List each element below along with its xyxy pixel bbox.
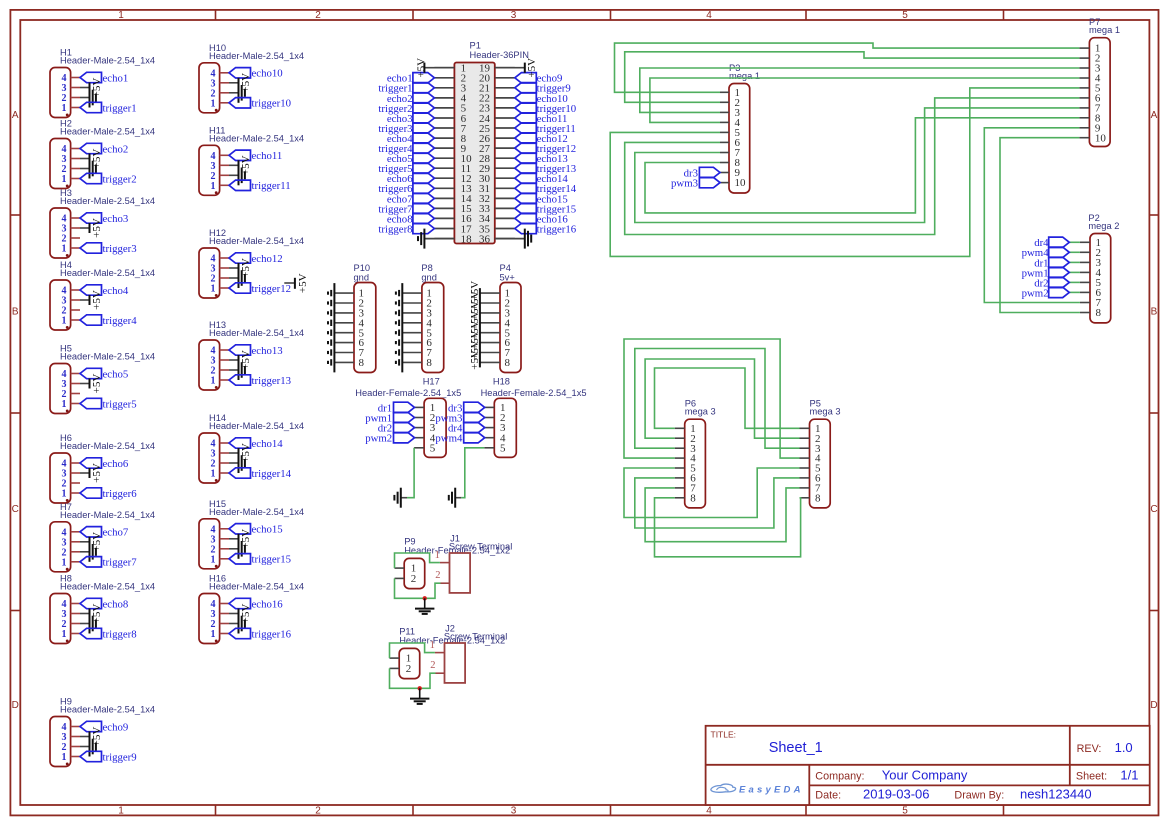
svg-text:Screw Terminal: Screw Terminal xyxy=(449,541,512,551)
H18 pin5 wire to ground xyxy=(455,448,494,498)
header H18 Header-Female-2.54_1x5 xyxy=(481,377,587,458)
svg-text:trigger2: trigger2 xyxy=(103,173,137,185)
net flag echo7 (P1 pin 14) xyxy=(387,193,435,205)
net flag echo4 (P1 pin 8) xyxy=(387,133,435,145)
svg-text:Header-Female-2.54_1x5: Header-Female-2.54_1x5 xyxy=(355,388,461,398)
wire P6.1-P5.1 xyxy=(655,368,800,428)
svg-text:echo16: echo16 xyxy=(252,598,284,610)
net flag echo11 xyxy=(229,150,282,162)
net flag trigger14 (P1 pin 31) xyxy=(515,183,577,195)
net flag trigger6 xyxy=(80,488,137,500)
wire P6.2-P5.2 xyxy=(645,359,799,438)
H10 pin 1 marker xyxy=(215,109,218,112)
svg-text:1: 1 xyxy=(118,806,124,817)
net flag echo11 (P1 pin 24) xyxy=(515,113,568,125)
net flag dr2 xyxy=(378,422,415,434)
svg-text:1.0: 1.0 xyxy=(1115,740,1133,755)
wire P11 pin1 to J2 pin1 xyxy=(390,643,435,658)
H11 pin 1 marker xyxy=(215,191,218,194)
svg-text:B: B xyxy=(12,307,19,318)
svg-text:1: 1 xyxy=(211,554,216,565)
svg-text:trigger15: trigger15 xyxy=(252,554,292,566)
header H8 Header-Male-2.54_1x4 xyxy=(50,574,155,644)
svg-text:3: 3 xyxy=(511,806,517,817)
svg-text:2: 2 xyxy=(315,10,321,21)
net flag echo2 xyxy=(80,143,128,155)
screw terminal J2 xyxy=(430,624,508,683)
net flag echo6 xyxy=(80,458,129,470)
svg-text:echo13: echo13 xyxy=(252,345,283,357)
net flag pwm2 xyxy=(1022,287,1080,299)
header H2 Header-Male-2.54_1x4 xyxy=(50,119,155,189)
svg-text:+5V: +5V xyxy=(91,218,103,238)
svg-text:Screw Terminal: Screw Terminal xyxy=(444,631,507,641)
H12 pin 1 marker xyxy=(215,294,218,297)
svg-text:5: 5 xyxy=(500,442,506,454)
net flag trigger7 (P1 pin 15) xyxy=(378,203,434,215)
svg-text:Company:: Company: xyxy=(815,770,864,782)
wire P3.7-P7.7 xyxy=(635,108,1080,223)
svg-text:echo9: echo9 xyxy=(103,721,129,733)
ground xyxy=(80,737,96,757)
net flag echo10 (P1 pin 22) xyxy=(515,93,568,105)
header H5 Header-Male-2.54_1x4 xyxy=(50,344,155,414)
ground xyxy=(229,83,245,103)
svg-text:1: 1 xyxy=(62,489,67,500)
svg-text:pwm3: pwm3 xyxy=(671,178,698,190)
power +5V xyxy=(229,604,252,624)
net flag echo2 (P1 pin 4) xyxy=(387,93,435,105)
net flag pwm2 xyxy=(365,433,414,445)
net flag echo10 xyxy=(229,68,283,80)
svg-text:trigger9: trigger9 xyxy=(103,751,137,763)
svg-text:trigger16: trigger16 xyxy=(252,628,292,640)
net flag pwm3 xyxy=(435,412,484,424)
header H14 Header-Male-2.54_1x4 xyxy=(199,413,304,483)
svg-text:8: 8 xyxy=(690,492,696,504)
net flag trigger2 xyxy=(80,173,137,185)
net flag trigger3 xyxy=(80,243,137,255)
net flag pwm3 xyxy=(671,177,720,189)
ground (P1 pin 18) xyxy=(418,229,454,249)
svg-text:Header-Male-2.54_1x4: Header-Male-2.54_1x4 xyxy=(209,507,304,517)
H9 pin 1 marker xyxy=(66,763,69,766)
junction xyxy=(418,686,422,690)
svg-text:5: 5 xyxy=(902,806,908,817)
net flag trigger13 (P1 pin 29) xyxy=(515,163,576,175)
svg-text:Date:: Date: xyxy=(815,789,841,801)
P5 pin stubs xyxy=(800,428,810,498)
svg-text:2019-03-06: 2019-03-06 xyxy=(863,786,930,801)
power +5V xyxy=(80,218,103,238)
power +5V xyxy=(80,374,103,394)
net flag trigger4 xyxy=(80,315,137,327)
connector P5 mega 3 xyxy=(810,399,841,508)
header H13 Header-Male-2.54_1x4 xyxy=(199,320,304,390)
svg-text:+5V: +5V xyxy=(526,58,538,78)
net flag dr1 xyxy=(1034,257,1080,269)
net flag trigger14 xyxy=(229,468,292,480)
net flag echo4 xyxy=(80,285,129,297)
H8 pin 1 marker xyxy=(66,640,69,643)
svg-text:trigger14: trigger14 xyxy=(252,468,292,480)
header H16 Header-Male-2.54_1x4 xyxy=(199,574,304,644)
svg-text:1: 1 xyxy=(62,103,67,114)
power +5V xyxy=(80,532,103,552)
P10 ground wires and rail xyxy=(328,283,354,372)
svg-text:H17: H17 xyxy=(423,377,440,387)
power +5V xyxy=(229,258,252,278)
svg-text:echo12: echo12 xyxy=(252,253,283,265)
header H12 Header-Male-2.54_1x4 xyxy=(199,228,304,298)
ground xyxy=(80,542,96,562)
svg-text:1: 1 xyxy=(211,469,216,480)
svg-text:10: 10 xyxy=(735,177,747,189)
net flag trigger8 (P1 pin 17) xyxy=(378,223,434,235)
svg-text:2: 2 xyxy=(315,806,321,817)
ground xyxy=(229,165,245,185)
ground xyxy=(449,488,455,508)
screw terminal J1 xyxy=(435,534,513,593)
svg-text:H18: H18 xyxy=(493,377,510,387)
wire P6.5-P5.5 xyxy=(624,468,800,518)
net flag echo13 (P1 pin 28) xyxy=(515,153,568,165)
svg-text:D: D xyxy=(12,700,19,711)
svg-text:C: C xyxy=(12,504,19,515)
connector P10 gnd xyxy=(354,263,376,373)
wire P6.7-P5.7 xyxy=(645,488,799,542)
net flag echo7 xyxy=(80,527,129,539)
svg-text:Header-Male-2.54_1x4: Header-Male-2.54_1x4 xyxy=(60,56,155,66)
svg-text:1: 1 xyxy=(211,629,216,640)
svg-text:1: 1 xyxy=(62,752,67,763)
svg-text:1: 1 xyxy=(62,629,67,640)
ground xyxy=(80,159,96,179)
net flag trigger10 (P1 pin 23) xyxy=(515,103,576,115)
svg-text:5: 5 xyxy=(902,10,908,21)
net flag pwm4 xyxy=(435,433,484,445)
H6 pin 1 marker xyxy=(66,499,69,502)
Company row xyxy=(815,767,968,782)
svg-text:echo11: echo11 xyxy=(252,150,283,162)
wire P9 pin2 to J1 pin2 xyxy=(395,578,441,598)
svg-text:TITLE:: TITLE: xyxy=(711,730,737,740)
H14 pin 1 marker xyxy=(215,479,218,482)
wire P3.6-P7.6 xyxy=(625,98,1080,235)
svg-text:1: 1 xyxy=(62,399,67,410)
svg-text:mega 1: mega 1 xyxy=(729,71,760,81)
net flag dr3 xyxy=(448,402,485,414)
power +5V (P1 pin 19) xyxy=(495,58,538,78)
svg-text:Header-Male-2.54_1x4: Header-Male-2.54_1x4 xyxy=(209,51,304,61)
net flag trigger15 xyxy=(229,554,291,566)
H13 pin 1 marker xyxy=(215,386,218,389)
svg-text:mega 3: mega 3 xyxy=(810,407,841,417)
H2 pin 1 marker xyxy=(66,185,69,188)
H3 pin 1 marker xyxy=(66,254,69,257)
power +5V xyxy=(229,443,252,463)
power +5V xyxy=(229,155,252,175)
P7 pin stubs xyxy=(1079,48,1089,138)
net flag trigger16 (P1 pin 35) xyxy=(515,223,577,235)
ground xyxy=(410,688,429,704)
power +5V xyxy=(80,463,103,483)
connector P7 mega 1 xyxy=(1089,17,1120,147)
ground xyxy=(80,88,96,108)
svg-text:Header-36PIN: Header-36PIN xyxy=(470,50,529,60)
net flag echo12 (P1 pin 26) xyxy=(515,133,568,145)
power +5V xyxy=(229,529,252,549)
header H7 Header-Male-2.54_1x4 xyxy=(50,502,155,572)
H5 pin 1 marker xyxy=(66,410,69,413)
net flag echo15 xyxy=(229,524,283,536)
net flag echo12 xyxy=(229,253,283,265)
svg-text:mega 2: mega 2 xyxy=(1088,221,1119,231)
svg-text:trigger6: trigger6 xyxy=(103,488,138,500)
connector P9 Header-Female-2.54_1x2 xyxy=(395,537,511,589)
wire P3.8-P7.8 xyxy=(645,118,1079,213)
svg-text:2: 2 xyxy=(435,570,440,581)
wire P7.10-P2.8 xyxy=(1000,138,1080,313)
P8 ground wires and rail xyxy=(396,283,422,372)
net flag echo16 (P1 pin 34) xyxy=(515,213,569,225)
H17 pin5 wire to ground xyxy=(401,448,424,498)
net flag trigger4 (P1 pin 9) xyxy=(378,143,434,155)
svg-text:8: 8 xyxy=(359,357,365,369)
wire P3.2-P7.2 xyxy=(625,52,1080,103)
svg-text:Your Company: Your Company xyxy=(882,767,968,782)
header H11 Header-Male-2.54_1x4 xyxy=(199,125,304,195)
title text TITLE: Sheet_1 xyxy=(711,730,823,757)
ground xyxy=(229,453,245,473)
net flag echo15 (P1 pin 32) xyxy=(515,193,568,205)
svg-text:nesh123440: nesh123440 xyxy=(1020,786,1092,801)
svg-text:Header-Male-2.54_1x4: Header-Male-2.54_1x4 xyxy=(60,582,155,592)
title block xyxy=(706,726,1150,805)
svg-text:+5V: +5V xyxy=(91,290,103,310)
svg-text:echo4: echo4 xyxy=(103,285,129,297)
wire P3.1-P7.1 xyxy=(615,43,1080,92)
H4 pin 1 marker xyxy=(66,326,69,329)
P3 pin stubs xyxy=(720,92,729,182)
svg-text:Header-Male-2.54_1x4: Header-Male-2.54_1x4 xyxy=(60,705,155,715)
svg-text:10: 10 xyxy=(1095,132,1107,144)
P2 pin stubs xyxy=(1080,242,1090,312)
header H10 Header-Male-2.54_1x4 xyxy=(199,43,304,113)
svg-text:1: 1 xyxy=(118,10,124,21)
svg-text:Header-Male-2.54_1x4: Header-Male-2.54_1x4 xyxy=(60,127,155,137)
EasyEDA logo xyxy=(711,784,804,795)
header H15 Header-Male-2.54_1x4 xyxy=(199,499,304,569)
net flag trigger8 xyxy=(80,628,137,640)
net flag trigger7 xyxy=(80,557,137,569)
net flag trigger2 (P1 pin 5) xyxy=(378,103,434,115)
svg-text:4: 4 xyxy=(706,10,712,21)
svg-text:echo14: echo14 xyxy=(252,438,284,450)
wire P9 pin1 to J1 pin1 xyxy=(395,553,440,568)
svg-text:+5V: +5V xyxy=(469,350,481,370)
REV: 1.0 xyxy=(1077,740,1133,755)
connector P4 5v+ xyxy=(500,263,522,373)
svg-text:echo3: echo3 xyxy=(103,213,129,225)
svg-text:trigger13: trigger13 xyxy=(252,375,292,387)
connector P8 gnd xyxy=(421,263,443,373)
svg-text:2: 2 xyxy=(411,573,417,585)
connector P2 mega 2 xyxy=(1088,213,1119,323)
svg-text:pwm4: pwm4 xyxy=(435,433,463,445)
svg-text:trigger1: trigger1 xyxy=(103,102,137,114)
svg-text:1: 1 xyxy=(211,98,216,109)
net flag pwm1 xyxy=(1022,267,1080,279)
net flag dr1 xyxy=(378,402,415,414)
svg-text:2: 2 xyxy=(406,663,412,675)
svg-text:echo5: echo5 xyxy=(103,368,129,380)
svg-text:trigger11: trigger11 xyxy=(252,180,291,192)
Sheet: 1/1 xyxy=(1076,768,1139,783)
svg-text:trigger3: trigger3 xyxy=(103,243,137,255)
connector P11 Header-Female-2.54_1x2 xyxy=(390,627,506,679)
wire P11 pin2 to J2 pin2 xyxy=(390,668,436,688)
net flag dr4 xyxy=(448,422,485,434)
net flag dr3 xyxy=(684,167,720,179)
Date row xyxy=(815,786,1091,801)
net flag echo3 (P1 pin 6) xyxy=(387,113,435,125)
svg-text:trigger8: trigger8 xyxy=(378,223,412,235)
net flag trigger11 (P1 pin 25) xyxy=(515,123,576,135)
svg-text:B: B xyxy=(1151,307,1158,318)
connector P6 mega 3 xyxy=(685,399,716,508)
svg-text:4: 4 xyxy=(706,806,712,817)
svg-text:Header-Male-2.54_1x4: Header-Male-2.54_1x4 xyxy=(209,328,304,338)
svg-text:Sheet_1: Sheet_1 xyxy=(769,740,823,756)
svg-text:Header-Female-2.54_1x5: Header-Female-2.54_1x5 xyxy=(481,388,587,398)
svg-text:echo6: echo6 xyxy=(103,458,129,470)
svg-text:Header-Male-2.54_1x4: Header-Male-2.54_1x4 xyxy=(60,268,155,278)
power +5V xyxy=(80,149,103,169)
svg-text:+5V: +5V xyxy=(415,58,427,78)
ground xyxy=(229,614,245,634)
connector P1 Header-36PIN xyxy=(434,41,529,246)
net flag pwm4 xyxy=(1022,247,1080,259)
wire P6.3-P5.3 xyxy=(635,349,800,449)
header H9 Header-Male-2.54_1x4 xyxy=(50,697,155,767)
svg-text:A: A xyxy=(1151,110,1158,121)
svg-text:1/1: 1/1 xyxy=(1120,768,1138,783)
ground xyxy=(229,539,245,559)
svg-text:pwm2: pwm2 xyxy=(365,433,392,445)
P4 +5V wires and rail xyxy=(469,281,500,370)
svg-text:1: 1 xyxy=(62,244,67,255)
H16 pin 1 marker xyxy=(215,640,218,643)
svg-text:1: 1 xyxy=(435,550,440,561)
ground xyxy=(394,488,400,508)
svg-text:1: 1 xyxy=(62,174,67,185)
svg-text:8: 8 xyxy=(815,492,821,504)
junction xyxy=(423,596,427,600)
ground xyxy=(80,614,96,634)
net flag echo8 xyxy=(80,598,128,610)
svg-text:echo8: echo8 xyxy=(103,598,129,610)
svg-text:C: C xyxy=(1150,504,1157,515)
net flag dr4 xyxy=(1034,237,1080,249)
net flag echo14 (P1 pin 30) xyxy=(515,173,569,185)
power +5V xyxy=(80,604,103,624)
net flag trigger12 xyxy=(229,283,291,295)
svg-text:1: 1 xyxy=(62,316,67,327)
net flag echo1 xyxy=(80,72,128,84)
svg-text:+5V: +5V xyxy=(91,374,103,394)
svg-text:+5V: +5V xyxy=(91,463,103,483)
svg-text:36: 36 xyxy=(479,233,491,245)
svg-text:echo10: echo10 xyxy=(252,68,283,80)
svg-text:Header-Male-2.54_1x4: Header-Male-2.54_1x4 xyxy=(209,582,304,592)
svg-text:Drawn By:: Drawn By: xyxy=(954,789,1004,801)
net flag echo5 (P1 pin 10) xyxy=(387,153,435,165)
net flag echo5 xyxy=(80,368,128,380)
svg-text:trigger10: trigger10 xyxy=(252,98,292,110)
net flag trigger9 (P1 pin 21) xyxy=(515,83,571,95)
svg-text:Header-Male-2.54_1x4: Header-Male-2.54_1x4 xyxy=(60,510,155,520)
power +5V (floating) xyxy=(284,273,309,293)
net flag trigger12 (P1 pin 27) xyxy=(515,143,576,155)
svg-text:1: 1 xyxy=(62,557,67,568)
net flag echo9 xyxy=(80,721,128,733)
ground xyxy=(415,598,434,614)
wire P6.8-P5.8 xyxy=(655,498,801,557)
svg-text:REV:: REV: xyxy=(1077,743,1102,755)
power +5V xyxy=(229,350,252,370)
ground (P1 pin 36) xyxy=(495,229,531,249)
svg-text:echo1: echo1 xyxy=(103,72,129,84)
H1 pin 1 marker xyxy=(66,114,69,117)
svg-text:trigger7: trigger7 xyxy=(103,557,138,569)
connector P3 mega 1 xyxy=(729,63,760,193)
wire P3.5-P7.5 xyxy=(610,88,1079,257)
svg-text:3: 3 xyxy=(511,10,517,21)
svg-text:2: 2 xyxy=(430,660,435,671)
power +5V (P1 pin 1) xyxy=(415,58,454,78)
net flag trigger6 (P1 pin 13) xyxy=(378,183,434,195)
wire P6.4-P5.4 xyxy=(624,339,800,458)
svg-text:8: 8 xyxy=(505,357,511,369)
svg-text:gnd: gnd xyxy=(421,272,437,282)
header H6 Header-Male-2.54_1x4 xyxy=(50,433,155,503)
net flag trigger1 (P1 pin 3) xyxy=(378,83,434,95)
net flag echo16 xyxy=(229,598,283,610)
net flag trigger5 xyxy=(80,398,137,410)
net flag echo1 (P1 pin 2) xyxy=(387,73,435,85)
wire P7.9-P2.7 xyxy=(984,128,1080,303)
wire P3.4-P7.4 xyxy=(650,78,1079,122)
wire P6.6-P5.6 xyxy=(635,478,800,528)
svg-text:Header-Male-2.54_1x4: Header-Male-2.54_1x4 xyxy=(209,134,304,144)
power +5V xyxy=(80,290,103,310)
svg-text:Sheet:: Sheet: xyxy=(1076,771,1107,783)
svg-text:mega 3: mega 3 xyxy=(685,407,716,417)
net flag trigger5 (P1 pin 11) xyxy=(378,163,434,175)
wire P3.3-P7.3 xyxy=(640,68,1080,112)
net flag trigger10 xyxy=(229,98,291,110)
svg-text:1: 1 xyxy=(211,181,216,192)
net flag trigger13 xyxy=(229,375,291,387)
header H3 Header-Male-2.54_1x4 xyxy=(50,188,155,258)
net flag dr2 xyxy=(1034,277,1080,289)
svg-text:trigger4: trigger4 xyxy=(103,315,138,327)
svg-text:Header-Male-2.54_1x4: Header-Male-2.54_1x4 xyxy=(209,421,304,431)
power +5V xyxy=(80,78,103,98)
ground xyxy=(229,360,245,380)
header H1 Header-Male-2.54_1x4 xyxy=(50,48,155,118)
